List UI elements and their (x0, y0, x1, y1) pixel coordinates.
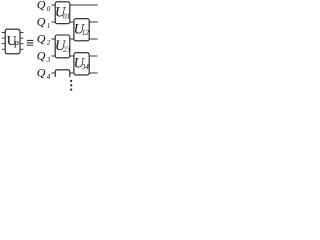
svg-text:3: 3 (46, 56, 51, 64)
svg-text:4: 4 (47, 73, 51, 81)
svg-text:2: 2 (47, 39, 51, 47)
qubit label Q3 (37, 49, 51, 64)
wire Q4 segments (51, 72, 97, 74)
wire Q1 segments (51, 21, 97, 23)
svg-text:Q: Q (37, 32, 46, 46)
svg-text:Q: Q (37, 66, 46, 80)
svg-text:P: P (14, 39, 20, 50)
equivalence symbol (27, 40, 34, 46)
two-qubit gate U45 (truncated) (55, 70, 70, 77)
qubit label Q0 (37, 0, 51, 13)
two-qubit gate U01 (55, 2, 70, 24)
svg-text:1: 1 (47, 22, 51, 30)
svg-text:12: 12 (82, 29, 90, 37)
qubit label Q2 (37, 32, 51, 47)
svg-text:01: 01 (63, 12, 70, 20)
wire Q0 segments (51, 4, 97, 6)
unitary block U_P (5, 29, 20, 54)
two-qubit gate U12 (74, 19, 90, 41)
svg-text:23: 23 (63, 46, 71, 54)
svg-text:Q: Q (37, 0, 46, 12)
qubit label Q1 (37, 15, 51, 30)
continuation dots (70, 80, 72, 91)
svg-text:34: 34 (81, 63, 90, 71)
svg-text:Q: Q (37, 15, 46, 29)
two-qubit gate U34 (74, 53, 90, 75)
wire Q2 segments (51, 38, 97, 40)
U_P left stub wires (2, 33, 5, 50)
label U_P (7, 34, 20, 51)
svg-text:0: 0 (47, 5, 51, 13)
qubit label Q4 (37, 66, 51, 81)
U_P right stub wires (20, 33, 23, 50)
wire Q3 segments (51, 55, 97, 57)
two-qubit gate U23 (55, 35, 71, 58)
svg-text:Q: Q (37, 49, 46, 63)
